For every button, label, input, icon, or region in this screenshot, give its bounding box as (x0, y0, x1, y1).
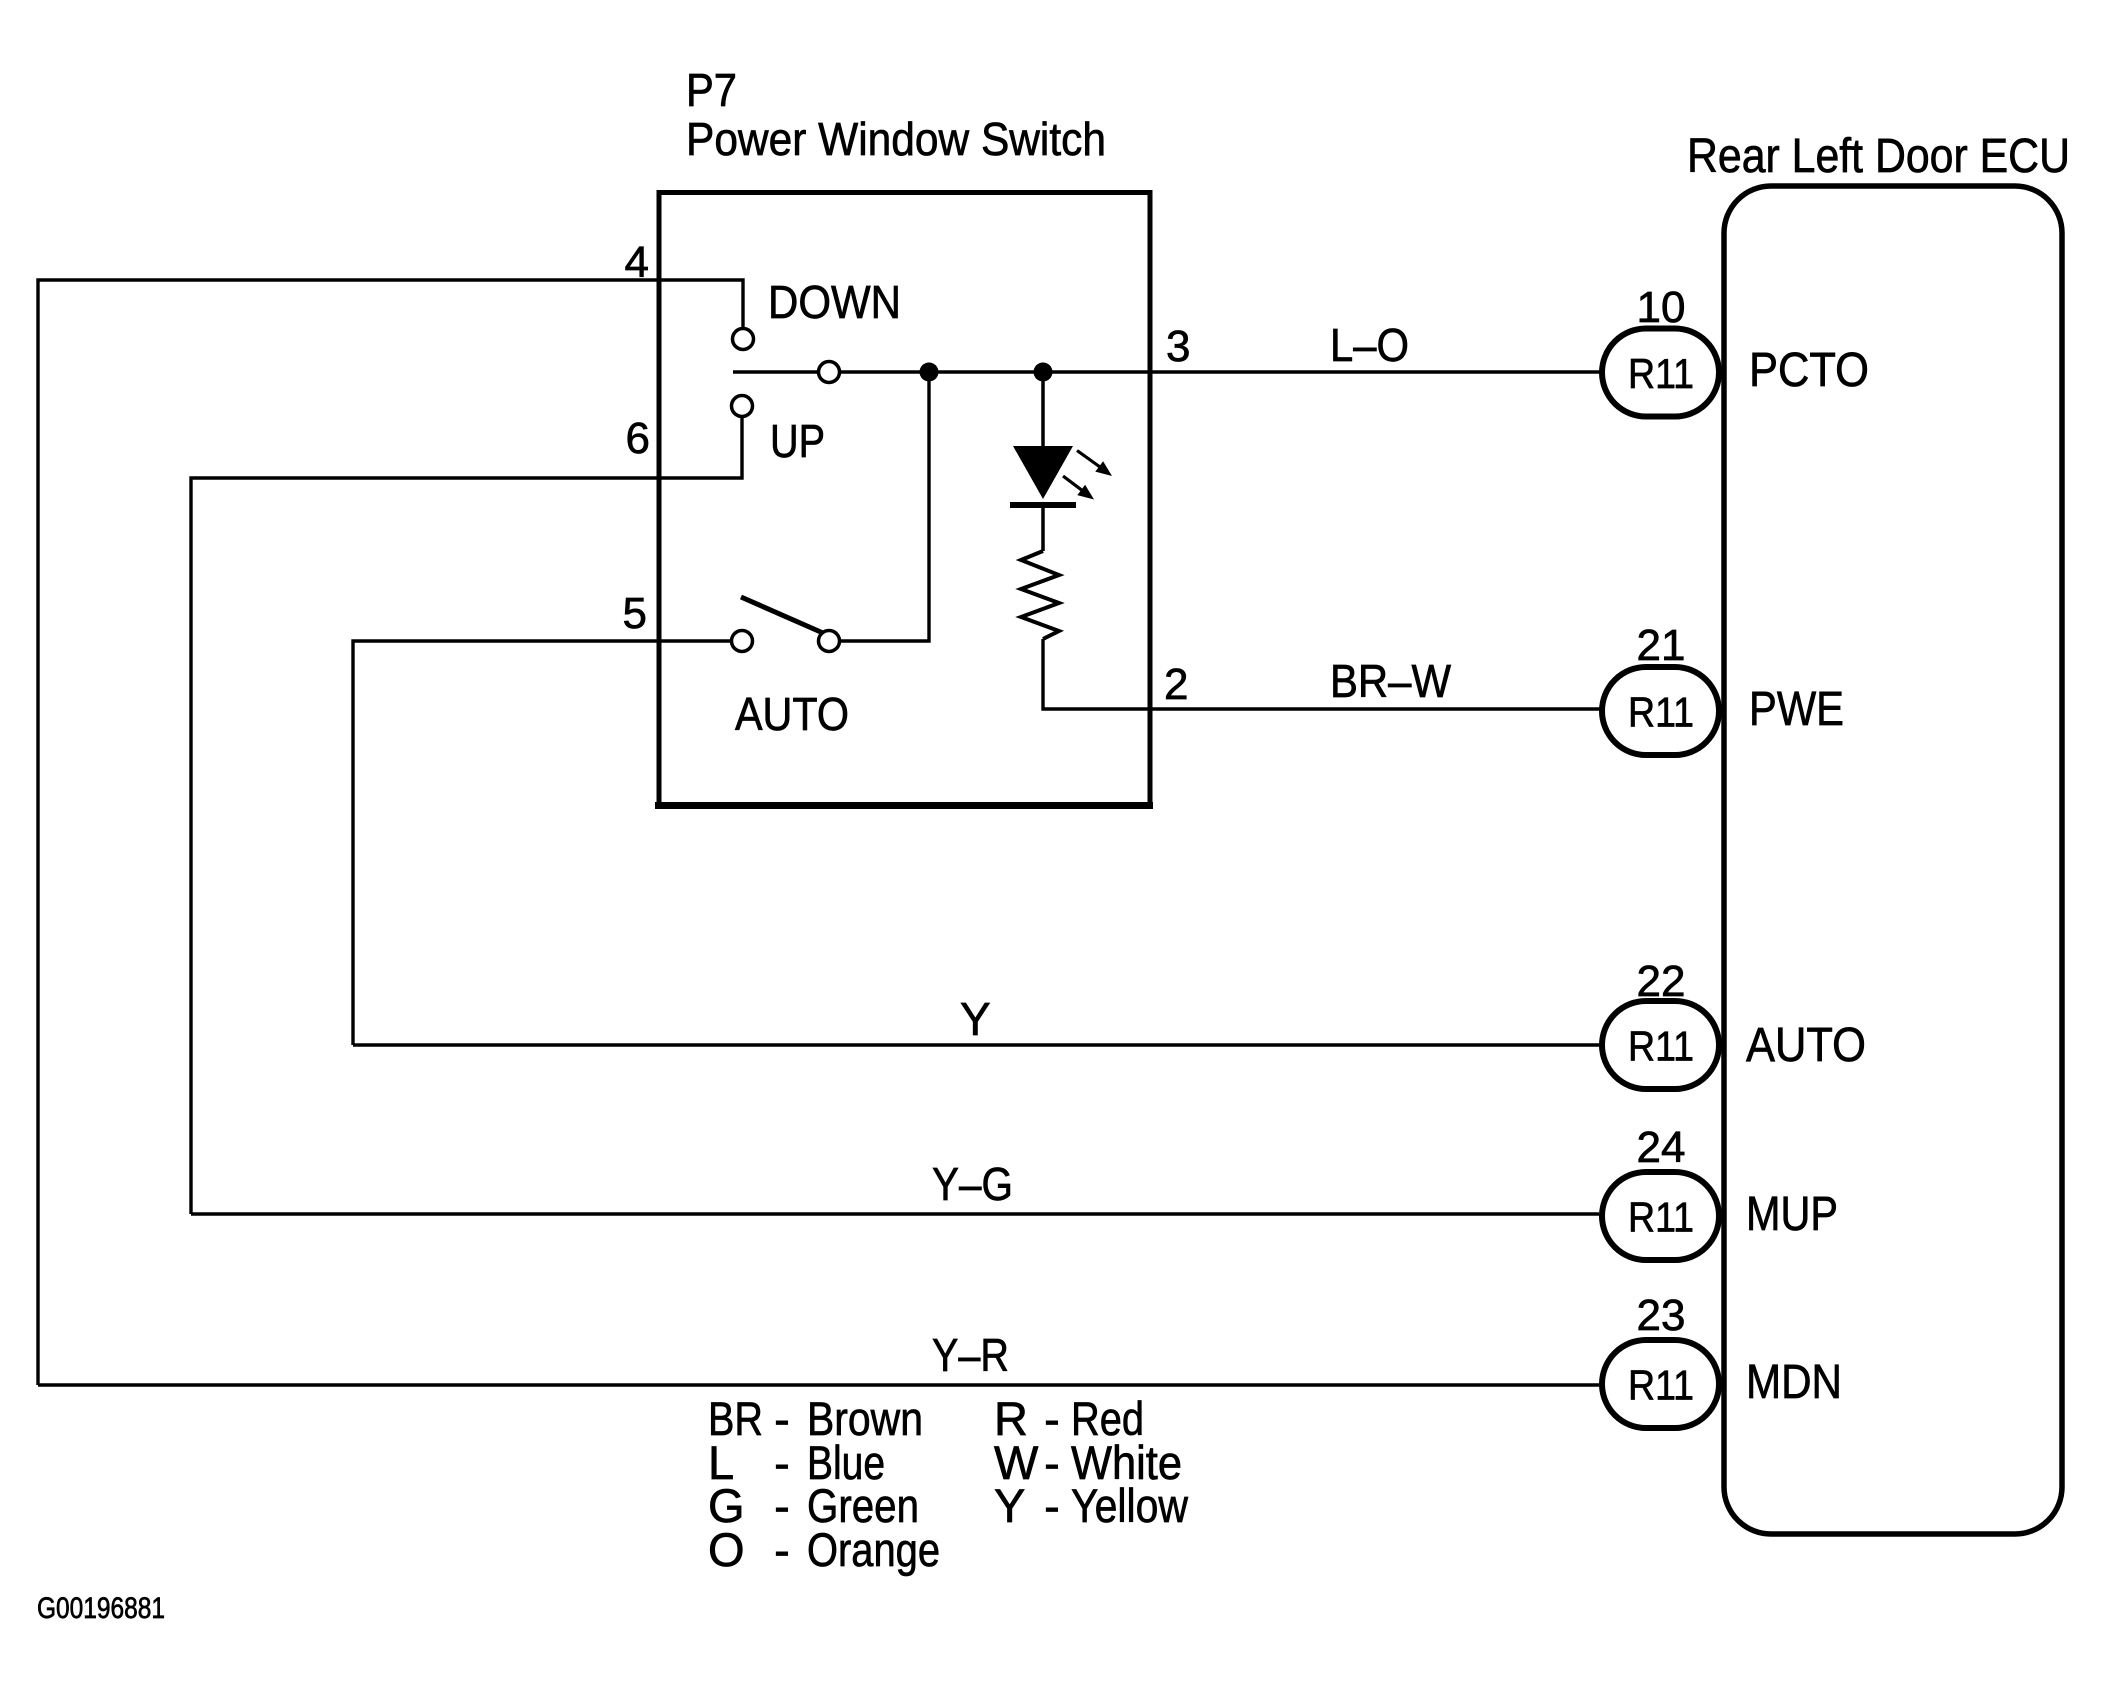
svg-text:R11: R11 (1628, 1362, 1694, 1409)
svg-text:22: 22 (1637, 957, 1686, 1006)
wire pin2 to PWE (1043, 639, 1600, 709)
svg-text:AUTO: AUTO (1746, 1019, 1866, 1072)
svg-text:Yellow: Yellow (1071, 1479, 1189, 1532)
contact UP circle (732, 396, 753, 417)
wire Y to AUTO pin (353, 1043, 1599, 1046)
svg-text:P7: P7 (686, 64, 737, 116)
wire pin6 (191, 417, 742, 1214)
svg-text:BR–W: BR–W (1330, 655, 1452, 707)
svg-text:Y–G: Y–G (932, 1158, 1013, 1210)
svg-text:MUP: MUP (1746, 1188, 1838, 1241)
wire LED anode riser (1041, 372, 1045, 446)
svg-text:Y–R: Y–R (932, 1329, 1009, 1381)
svg-text:AUTO: AUTO (735, 688, 849, 740)
connector R11 pin 22 (1602, 957, 1719, 1089)
junction node on pin3 wire (920, 363, 939, 382)
svg-text:O: O (708, 1523, 745, 1576)
wire pin5 (353, 641, 731, 1045)
svg-text:L–O: L–O (1330, 319, 1409, 371)
contact AUTO right circle (819, 631, 840, 652)
wire LED to resistor (1041, 505, 1045, 551)
svg-text:Power Window Switch: Power Window Switch (686, 113, 1106, 165)
junction node LED branch (1034, 363, 1053, 382)
svg-text:21: 21 (1637, 621, 1686, 670)
svg-text:DOWN: DOWN (768, 276, 901, 328)
svg-text:-: - (774, 1523, 790, 1576)
svg-text:Y: Y (994, 1479, 1025, 1532)
connector R11 pin 24 (1602, 1123, 1719, 1260)
contact AUTO left circle (732, 631, 753, 652)
LED light arrow 2 (1063, 476, 1094, 500)
LED D1 triangle (1013, 446, 1073, 499)
svg-text:4: 4 (625, 238, 649, 287)
LED light arrow 1 (1077, 451, 1112, 477)
wire pin3 to PCTO (841, 370, 1600, 373)
svg-text:5: 5 (623, 589, 647, 638)
svg-text:2: 2 (1164, 660, 1188, 709)
svg-text:MDN: MDN (1746, 1356, 1842, 1409)
contact DOWN circle (733, 329, 754, 350)
ECU box Rear Left Door ECU (1724, 186, 2062, 1534)
moving contact circle (819, 362, 840, 383)
svg-text:PWE: PWE (1749, 683, 1844, 736)
svg-text:Rear Left Door ECU: Rear Left Door ECU (1687, 130, 2070, 183)
switch blade AUTO (741, 597, 823, 633)
wire AUTO contact to riser (840, 372, 929, 641)
wire common pole left segment (733, 370, 817, 374)
svg-text:G00196881: G00196881 (37, 1592, 165, 1625)
legend wire color codes (708, 1392, 1189, 1576)
svg-text:R11: R11 (1628, 350, 1694, 397)
switch box bottom edge (thicker) (655, 802, 1153, 809)
svg-text:10: 10 (1637, 283, 1686, 332)
connector R11 pin 23 (1602, 1291, 1719, 1428)
svg-text:3: 3 (1166, 322, 1190, 371)
svg-text:23: 23 (1637, 1291, 1686, 1340)
switch box P7 (659, 193, 1150, 806)
svg-text:Y: Y (960, 993, 991, 1045)
svg-text:R11: R11 (1628, 689, 1694, 736)
resistor R zigzag (1021, 551, 1059, 639)
svg-text:-: - (1044, 1479, 1060, 1532)
svg-text:PCTO: PCTO (1749, 344, 1869, 397)
wire Y-R to MDN (38, 1383, 1599, 1386)
svg-text:24: 24 (1637, 1123, 1686, 1172)
svg-text:6: 6 (626, 414, 650, 463)
svg-text:R11: R11 (1628, 1194, 1694, 1241)
connector R11 pin 21 (1602, 621, 1719, 755)
svg-text:UP: UP (770, 415, 825, 467)
connector R11 pin 10 (1602, 283, 1719, 417)
LED cathode bar (1010, 502, 1076, 508)
svg-text:R11: R11 (1628, 1023, 1694, 1070)
wire Y-G to MUP (191, 1212, 1599, 1215)
svg-text:Orange: Orange (807, 1523, 940, 1576)
wire pin4 horizontal (38, 280, 743, 1385)
